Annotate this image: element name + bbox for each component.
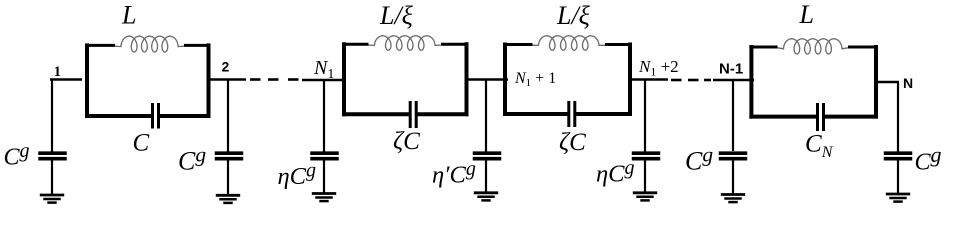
wire cap to ground (node N-1) bbox=[732, 160, 734, 195]
inductor L/xi (tank 2) bbox=[369, 36, 442, 50]
capacitor C (tank 1) bbox=[153, 103, 159, 129]
wire node 2 shunt drop bbox=[227, 80, 229, 153]
wire node N-1 bbox=[713, 79, 754, 82]
capacitor etapCg at node N1+1 bbox=[473, 153, 502, 159]
wire tank4 to node N bbox=[875, 81, 899, 84]
capacitor zetaC (tank 2) bbox=[410, 101, 416, 128]
wire node 1 shunt drop bbox=[51, 80, 53, 153]
svg-text:L/ξ: L/ξ bbox=[556, 1, 591, 30]
svg-text:L: L bbox=[799, 0, 814, 29]
wire cap to ground (node N) bbox=[897, 160, 899, 194]
wire tank3 to dashes bbox=[631, 78, 668, 81]
capacitor Cg at node 1 bbox=[38, 153, 67, 159]
wire cap to ground (node 2) bbox=[227, 160, 229, 196]
ground (node 1) bbox=[40, 195, 64, 203]
ground (node 2) bbox=[216, 195, 240, 203]
capacitor etaCg at node N1+2 bbox=[632, 153, 661, 159]
ground (node N1) bbox=[312, 194, 336, 202]
wire node N1+2 shunt drop bbox=[644, 80, 646, 153]
capacitor etaCg at node N1 bbox=[310, 153, 339, 159]
tank 3 frame bbox=[503, 43, 632, 117]
wire node N-1 shunt drop bbox=[732, 80, 734, 151]
wire cap to ground (node N1+1) bbox=[485, 160, 487, 193]
tank 1 frame bbox=[85, 43, 211, 118]
svg-text:ζC: ζC bbox=[393, 128, 420, 155]
wire cap to ground (node N1) bbox=[323, 160, 325, 194]
svg-text:N1 +2: N1 +2 bbox=[638, 57, 679, 79]
wire node N1 bbox=[302, 79, 346, 82]
svg-text:C: C bbox=[133, 130, 150, 157]
wire cap to ground (node N1+2) bbox=[644, 160, 646, 193]
wire tank1 to node 2 bbox=[208, 78, 246, 81]
capacitor Cg at node N-1 bbox=[719, 153, 748, 159]
dashed wire (N1+2 to N-1) bbox=[671, 79, 711, 82]
ground (node N1+2) bbox=[633, 193, 657, 201]
svg-text:1: 1 bbox=[54, 64, 61, 80]
svg-text:N1 + 1: N1 + 1 bbox=[514, 70, 556, 89]
capacitor CN (tank 4) bbox=[818, 103, 824, 131]
svg-text:N-1: N-1 bbox=[719, 61, 743, 78]
tank 2 frame bbox=[342, 42, 469, 116]
tank 4 frame bbox=[749, 45, 878, 119]
ground (node N-1) bbox=[721, 195, 745, 203]
wire node N1 shunt drop bbox=[323, 80, 325, 152]
wire node N1+1 shunt drop bbox=[485, 80, 487, 153]
svg-text:2: 2 bbox=[222, 59, 230, 75]
wire cap to ground (node 1) bbox=[51, 160, 53, 196]
svg-text:L/ξ: L/ξ bbox=[379, 1, 414, 30]
ground (node N) bbox=[886, 194, 910, 202]
wire tank2 to tank3 bbox=[467, 78, 508, 81]
ground (node N1+1) bbox=[474, 193, 498, 201]
svg-text:L: L bbox=[121, 1, 136, 30]
inductor L/xi (tank 3) bbox=[533, 36, 606, 50]
svg-text:N: N bbox=[903, 75, 913, 91]
wire node N shunt drop bbox=[897, 82, 899, 152]
inductor L (tank 1) bbox=[115, 36, 184, 52]
dashed wire (node 2 to N1) bbox=[250, 78, 299, 81]
wire node 1 bbox=[50, 78, 82, 81]
capacitor Cg at node 2 bbox=[215, 153, 244, 159]
svg-text:ζC: ζC bbox=[559, 129, 586, 156]
capacitor Cg at node N bbox=[884, 153, 913, 159]
capacitor zetaC (tank 3) bbox=[569, 101, 575, 127]
inductor L (tank 4) bbox=[778, 39, 849, 54]
